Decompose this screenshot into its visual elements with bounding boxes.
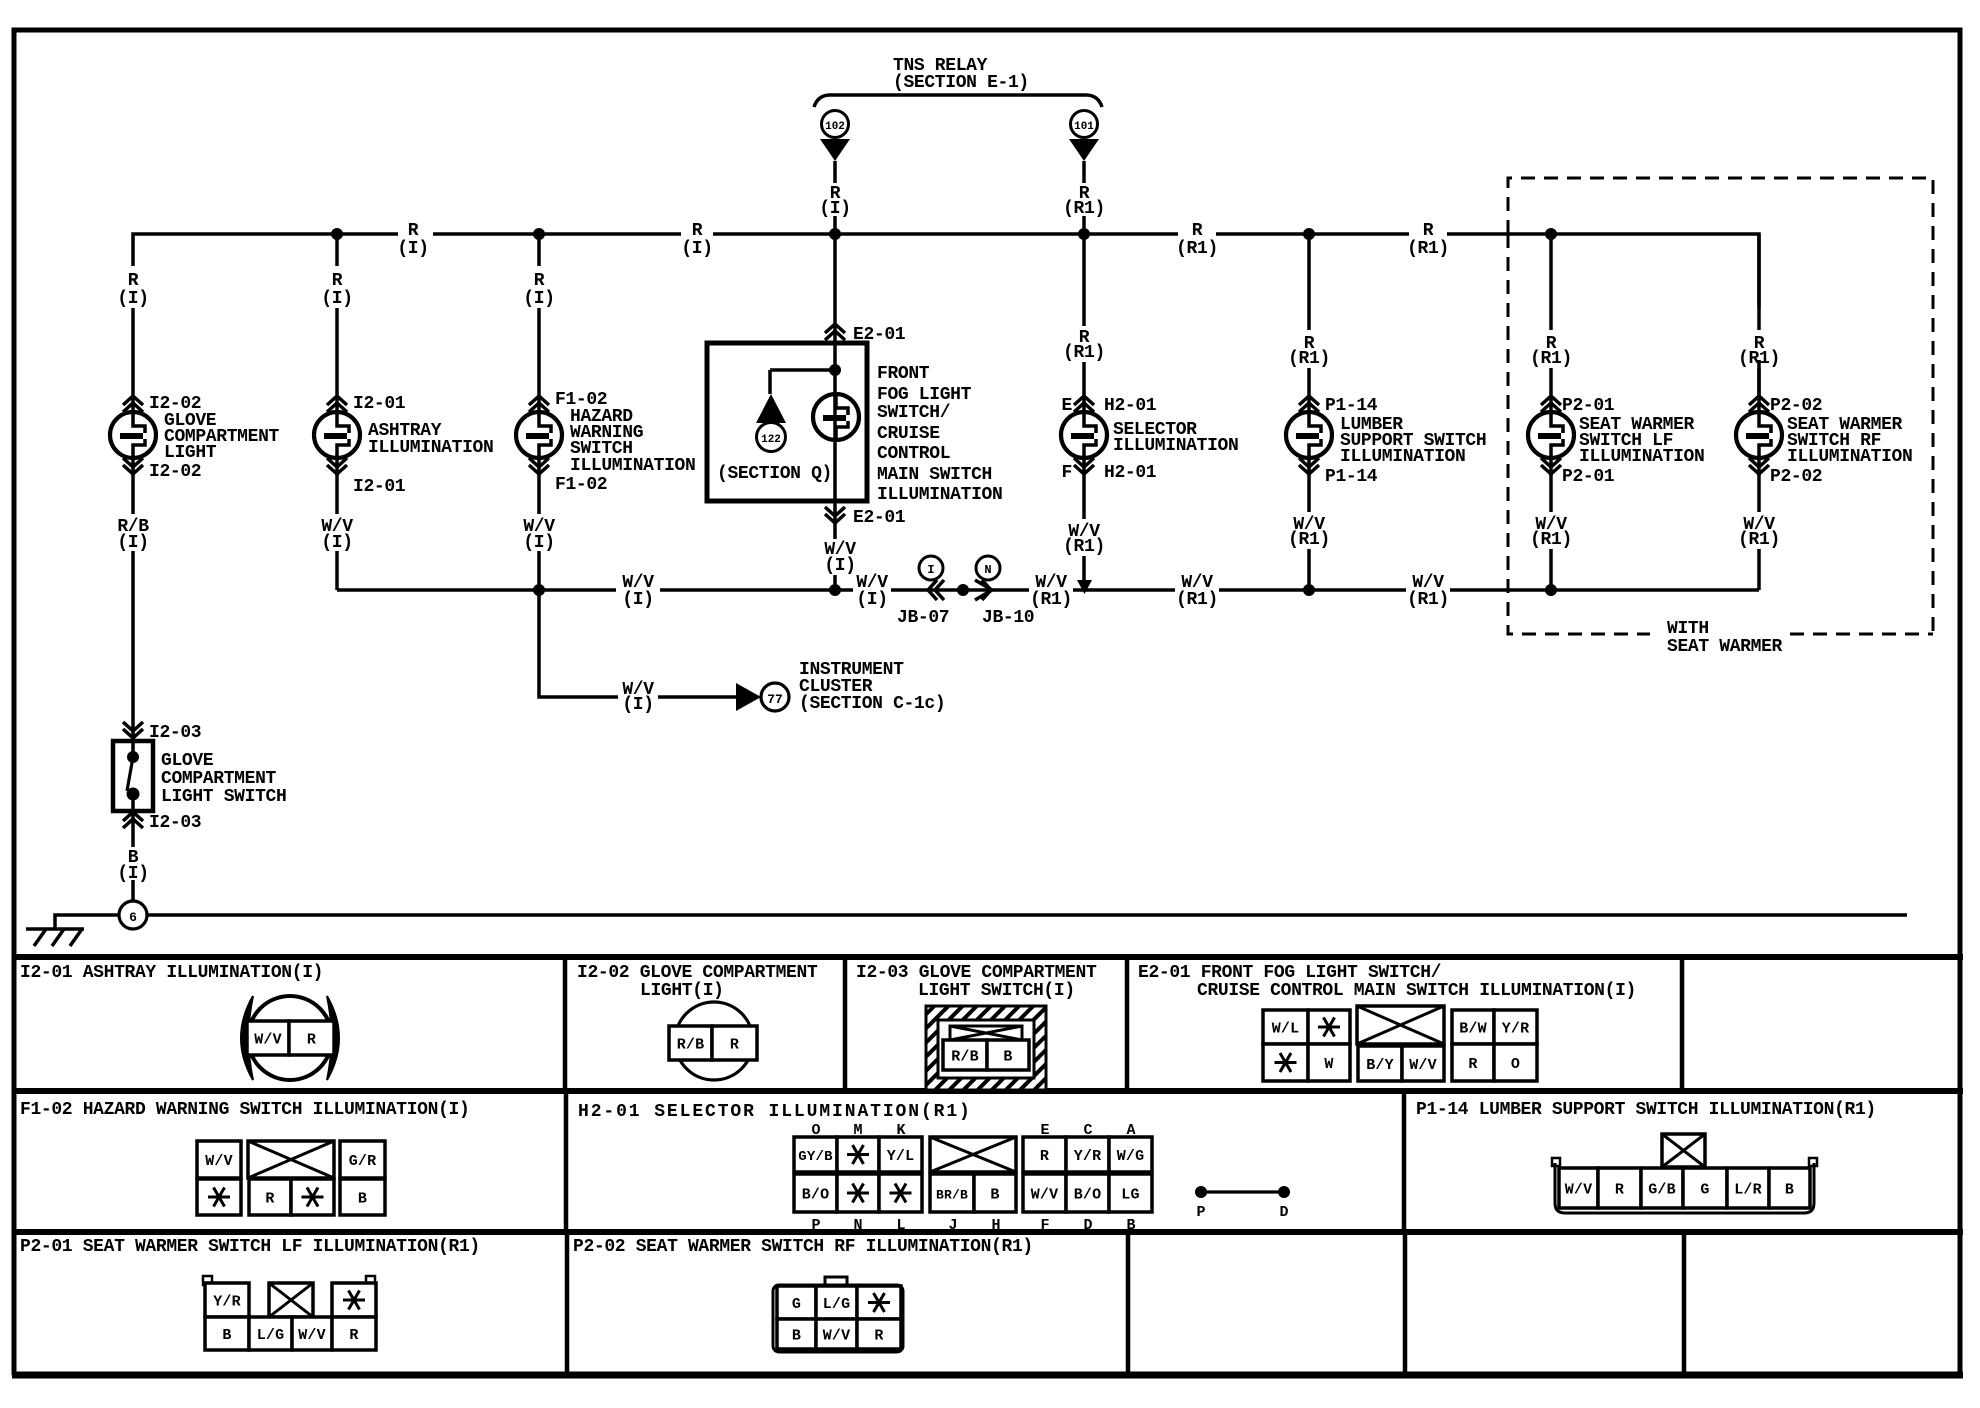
W/V rail wire [337,588,1759,592]
svg-text:W/V: W/V [823,1328,851,1345]
svg-text:(I): (I) [819,199,850,219]
svg-text:I2-01 ASHTRAY ILLUMINATION(I): I2-01 ASHTRAY ILLUMINATION(I) [20,963,323,983]
svg-text:(I): (I) [824,556,855,576]
svg-text:W/G: W/G [1117,1148,1145,1165]
bus junction x=1551 [1545,228,1557,240]
svg-text:R: R [128,271,139,291]
svg-text:W/L: W/L [1272,1021,1300,1038]
svg-text:P1-14 LUMBER SUPPORT SWITCH I: P1-14 LUMBER SUPPORT SWITCH ILLUMINATION… [1416,1100,1876,1120]
svg-text:(R1): (R1) [1738,530,1780,550]
svg-text:ILLUMINATION: ILLUMINATION [1787,447,1912,467]
svg-text:SEAT WARMER: SEAT WARMER [1667,637,1783,657]
svg-text:L/G: L/G [257,1327,285,1344]
svg-text:G/R: G/R [349,1153,377,1170]
wire bus to glove lamp, R (I) [335,234,339,412]
svg-text:Y/R: Y/R [1502,1021,1530,1038]
bus junction x=1084 [1078,228,1090,240]
connector I2-03 above switch [123,722,143,738]
svg-text:(SECTION C-1c): (SECTION C-1c) [799,694,945,714]
svg-text:(R1): (R1) [1176,239,1218,259]
connector I2-02 below lamp [123,458,143,474]
svg-text:(I): (I) [117,289,148,309]
svg-text:R: R [1615,1182,1624,1199]
svg-text:(SECTION E-1): (SECTION E-1) [893,73,1029,93]
connector F1-02 below lamp [529,458,549,474]
svg-text:GY/B: GY/B [798,1149,833,1165]
connector I2-03 below switch [123,812,143,828]
wire bus to E2-01 box [833,234,837,343]
svg-text:R: R [1468,1056,1477,1073]
connector E2-01 below box [825,507,845,523]
svg-text:COMPARTMENT: COMPARTMENT [161,769,277,789]
ground wire [55,915,1907,929]
H2-01 connector [794,1137,837,1172]
svg-text:W: W [1324,1056,1333,1073]
svg-text:B/W: B/W [1459,1021,1487,1038]
svg-text:W/V: W/V [298,1327,326,1344]
svg-text:B: B [1003,1049,1012,1066]
svg-text:R: R [349,1327,358,1344]
svg-text:(I): (I) [856,590,887,610]
lamp bulb P1-14 [1286,412,1332,458]
svg-text:R/B: R/B [677,1037,705,1054]
lamp bulb E2-01 front fog [813,394,859,440]
svg-text:R: R [534,271,545,291]
dashed box with seat warmer [1508,178,1933,634]
svg-text:ILLUMINATION: ILLUMINATION [877,485,1002,505]
svg-text:W/V: W/V [1409,1057,1437,1074]
svg-text:L: L [896,1217,905,1234]
svg-text:F: F [1040,1217,1049,1234]
svg-text:(R1): (R1) [1288,530,1330,550]
svg-text:I2-02 GLOVE COMPARTMENT: I2-02 GLOVE COMPARTMENT [577,963,818,983]
ground junction 6 [119,901,147,929]
svg-text:J: J [948,1217,957,1234]
top bus wire R [133,234,1759,412]
svg-text:WITH: WITH [1667,619,1709,639]
svg-text:P2-02: P2-02 [1770,467,1822,487]
svg-text:H2-01: H2-01 [1104,463,1157,483]
connector P1-14 above lamp [1299,396,1319,412]
svg-text:R: R [692,221,703,241]
svg-text:Y/R: Y/R [1074,1148,1102,1165]
connector I2-01 above lamp [327,396,347,412]
svg-text:W/V: W/V [1565,1182,1593,1199]
svg-text:N: N [853,1217,862,1234]
TNS relay terminal 101 [1069,111,1099,162]
wire bus to seat warmer RF lamp, R (R1) [1757,234,1761,396]
svg-text:H2-01: H2-01 [1104,396,1157,416]
svg-text:R: R [265,1191,274,1208]
lamp bulb F1-02 [516,412,562,458]
wire inside box [770,343,835,501]
svg-text:W/V: W/V [205,1153,233,1170]
arrow to instrument cluster [736,683,761,711]
svg-text:P: P [1196,1204,1205,1221]
svg-text:GLOVE: GLOVE [161,751,214,771]
connector P2-01 above lamp [1541,396,1561,412]
svg-text:I2-01: I2-01 [353,394,406,414]
svg-text:R: R [874,1328,883,1345]
TNS relay terminal 102 [820,111,850,162]
svg-text:(SECTION Q): (SECTION Q) [717,464,832,484]
lamp bulb I2-01 [314,412,360,458]
svg-text:B: B [1785,1182,1794,1199]
svg-text:R: R [307,1032,316,1049]
wire E2-01 to rail, label W/V (I) [833,502,837,590]
svg-text:(I): (I) [117,864,148,884]
wire seat warmer LF to rail, label W/V (R1) [1549,458,1553,590]
svg-text:D: D [1279,1204,1288,1221]
svg-text:(R1): (R1) [1063,537,1105,557]
svg-text:B: B [222,1327,231,1344]
svg-text:(R1): (R1) [1407,590,1449,610]
I2-01 connector [248,996,332,1080]
svg-text:FOG LIGHT: FOG LIGHT [877,385,972,405]
svg-text:(R1): (R1) [1063,343,1105,363]
connector F1-02 above lamp [529,396,549,412]
P1-14 connector [1662,1134,1705,1167]
wire seat warmer RF to rail, label W/V (R1) [1757,458,1761,590]
svg-text:R: R [1040,1148,1049,1165]
svg-text:(I): (I) [622,590,653,610]
wire bus to seat warmer LF lamp, R (R1) [1549,234,1553,412]
lamp bulb P2-01 [1528,412,1574,458]
svg-text:L/R: L/R [1734,1182,1762,1199]
wire TNS 102 to bus, label R (I) [833,161,837,234]
svg-text:E: E [1062,396,1073,416]
svg-text:H2-01 SELECTOR ILLUMINATION(: H2-01 SELECTOR ILLUMINATION(R1) [578,1102,972,1122]
selector illumination H2-01 [1074,396,1094,412]
svg-text:P2-01: P2-01 [1562,467,1615,487]
svg-text:(I): (I) [681,239,712,259]
svg-text:W/V: W/V [254,1032,282,1049]
border frame [14,30,1960,957]
svg-text:Y/L: Y/L [887,1148,915,1165]
svg-text:(R1): (R1) [1407,239,1449,259]
svg-text:6: 6 [129,910,137,925]
lamp bulb P2-02 [1736,412,1782,458]
rail junction x=835 [829,584,841,596]
svg-text:(R1): (R1) [1030,590,1072,610]
connector P2-02 above lamp [1749,396,1769,412]
connector P1-14 below lamp [1299,458,1319,474]
wire ashtray to rail, label W/V (I) [335,458,339,590]
svg-text:B/O: B/O [1074,1187,1102,1204]
svg-text:(I): (I) [321,289,352,309]
svg-text:CRUISE CONTROL MAIN SWITCH ILL: CRUISE CONTROL MAIN SWITCH ILLUMINATION(… [1197,981,1636,1001]
svg-text:R/B: R/B [951,1049,979,1066]
ground symbol [26,927,84,931]
svg-text:R: R [1192,221,1203,241]
svg-text:H: H [991,1217,1000,1234]
svg-text:LIGHT: LIGHT [164,443,217,463]
svg-text:P1-14: P1-14 [1325,396,1378,416]
junction JB-07 [919,556,943,580]
svg-text:(I): (I) [622,695,653,715]
svg-text:R: R [730,1037,739,1054]
svg-text:LG: LG [1121,1187,1139,1204]
P2-02 connector [825,1277,847,1284]
svg-text:R: R [332,271,343,291]
svg-text:N: N [984,563,991,577]
svg-text:ILLUMINATION: ILLUMINATION [1113,436,1238,456]
wire switch to ground, label B (I) [131,811,135,901]
svg-text:P: P [811,1217,820,1234]
rail junction x=539 [533,584,545,596]
svg-text:BR/B: BR/B [936,1188,968,1203]
connector 77 instrument cluster [761,683,789,711]
svg-text:O: O [1511,1056,1520,1073]
wire to instrument cluster [539,590,736,697]
svg-text:(R1): (R1) [1288,349,1330,369]
svg-text:(I): (I) [117,533,148,553]
connector I2-01 below lamp [327,458,347,474]
svg-text:I2-03 GLOVE COMPARTMENT: I2-03 GLOVE COMPARTMENT [856,963,1097,983]
svg-text:I2-03: I2-03 [149,723,201,743]
svg-text:B: B [1126,1217,1135,1234]
svg-text:P2-01: P2-01 [1562,396,1615,416]
svg-text:CONTROL: CONTROL [877,444,950,464]
H2-01 P-D jumper [1195,1186,1207,1198]
svg-text:JB-07: JB-07 [897,608,949,628]
svg-text:(I): (I) [523,289,554,309]
svg-text:(I): (I) [523,533,554,553]
svg-text:LIGHT SWITCH: LIGHT SWITCH [161,787,286,807]
svg-text:W/V: W/V [1031,1187,1059,1204]
svg-text:E2-01: E2-01 [853,508,906,528]
wire lumber to rail, label W/V (R1) [1307,458,1311,590]
rail junction x=1309 [1303,584,1315,596]
svg-text:122: 122 [761,434,781,446]
svg-text:JB-10: JB-10 [982,608,1034,628]
svg-text:I2-02: I2-02 [149,462,201,482]
svg-text:P2-01 SEAT WARMER SWITCH LF I: P2-01 SEAT WARMER SWITCH LF ILLUMINATION… [20,1237,480,1257]
E2-01 connector [1263,1010,1308,1044]
svg-text:CRUISE: CRUISE [877,424,940,444]
svg-text:I2-03: I2-03 [149,813,201,833]
svg-text:SWITCH/: SWITCH/ [877,403,950,423]
svg-text:ILLUMINATION: ILLUMINATION [1579,447,1704,467]
svg-text:P2-02 SEAT WARMER SWITCH RF I: P2-02 SEAT WARMER SWITCH RF ILLUMINATION… [573,1237,1033,1257]
svg-text:F1-02: F1-02 [555,475,607,495]
svg-text:ILLUMINATION: ILLUMINATION [1340,447,1465,467]
wire bus to lumber lamp, R (R1) [1307,234,1311,412]
svg-text:G: G [1700,1182,1709,1199]
svg-text:FRONT: FRONT [877,364,930,384]
svg-text:ILLUMINATION: ILLUMINATION [368,438,493,458]
svg-text:B: B [990,1187,999,1204]
I2-02 connector [675,1002,753,1080]
svg-text:D: D [1083,1217,1092,1234]
lamp bulb I2-02 [110,412,156,458]
connector P2-02 below lamp [1749,458,1769,474]
arrow selector wire onto rail [1077,580,1092,594]
svg-text:F1-02 HAZARD WARNING SWITCH I: F1-02 HAZARD WARNING SWITCH ILLUMINATION… [20,1100,469,1120]
svg-text:77: 77 [767,692,783,707]
svg-text:G: G [792,1296,801,1313]
front fog light switch box (SECTION Q) [707,343,867,501]
svg-text:(I): (I) [397,239,428,259]
svg-text:(I): (I) [321,533,352,553]
svg-text:I2-01: I2-01 [353,477,406,497]
connector P2-01 below lamp [1541,458,1561,474]
rail junction x=963 [957,584,969,596]
svg-text:L/G: L/G [823,1296,851,1313]
svg-text:R: R [1423,221,1434,241]
svg-text:MAIN SWITCH: MAIN SWITCH [877,465,992,485]
svg-text:F: F [1062,463,1072,483]
svg-text:LIGHT SWITCH(I): LIGHT SWITCH(I) [918,981,1075,1001]
svg-text:(R1): (R1) [1063,199,1105,219]
P2-01 connector [203,1276,212,1285]
svg-text:ILLUMINATION: ILLUMINATION [570,456,695,476]
svg-text:LIGHT(I): LIGHT(I) [640,981,724,1001]
svg-text:B/Y: B/Y [1366,1057,1394,1074]
svg-text:101: 101 [1074,121,1094,133]
bus junction x=539 [533,228,545,240]
wire bus to selector lamp, R (R1) [1082,234,1086,412]
bus junction x=1309 [1303,228,1315,240]
junction JB-10 [976,556,1000,580]
F1-02 connector [197,1141,241,1178]
svg-text:Y/R: Y/R [213,1294,241,1311]
connector I2-02 above lamp [123,396,143,412]
svg-text:E2-01 FRONT FOG LIGHT SWITCH/: E2-01 FRONT FOG LIGHT SWITCH/ [1138,963,1441,983]
svg-text:(R1): (R1) [1176,590,1218,610]
svg-text:(R1): (R1) [1530,530,1572,550]
svg-text:102: 102 [825,121,845,133]
glove compartment light switch [113,741,153,811]
svg-text:B: B [358,1191,367,1208]
svg-text:B: B [792,1328,801,1345]
wire bus to hazard lamp, R (I) [537,234,541,412]
svg-text:(R1): (R1) [1530,349,1572,369]
svg-text:B/O: B/O [802,1187,830,1204]
svg-text:P2-02: P2-02 [1770,396,1822,416]
table grid [12,957,1963,1232]
svg-text:R: R [408,221,419,241]
wire selector to rail, label W/V (R1) [1082,458,1086,581]
svg-text:(R1): (R1) [1738,349,1780,369]
wire glove lamp down, label R/B (I) [131,458,135,741]
wire hazard to rail, label W/V (I) [537,458,541,590]
rail junction x=1551 [1545,584,1557,596]
svg-text:I: I [927,563,934,577]
connector E2-01 above box [825,324,845,340]
svg-text:G/B: G/B [1648,1182,1676,1199]
arrow to 122 (section Q) [756,394,786,423]
TNS relay brace [814,95,1102,107]
bus junction x=835 [829,228,841,240]
bus junction x=337 [331,228,343,240]
wire TNS 101 to bus, label R (R1) [1082,161,1086,234]
svg-text:P1-14: P1-14 [1325,467,1378,487]
